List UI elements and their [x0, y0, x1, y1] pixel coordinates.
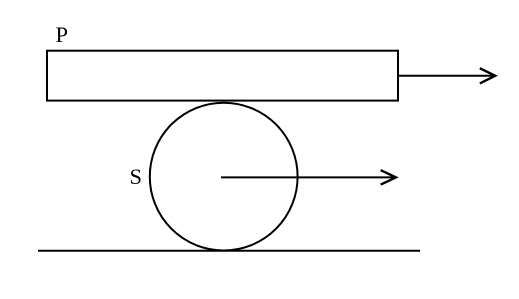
wire arrow shaft from circle centre [221, 176, 395, 178]
sphere S (circle) [150, 103, 298, 251]
arrowhead of circle arrow [381, 170, 396, 184]
svg-text:S: S [130, 164, 143, 189]
svg-text:P: P [56, 22, 69, 47]
plank P (rectangle) [47, 51, 398, 101]
arrowhead of plank arrow [480, 68, 495, 83]
wire arrow shaft from plank [398, 75, 494, 77]
ground line [38, 250, 420, 252]
